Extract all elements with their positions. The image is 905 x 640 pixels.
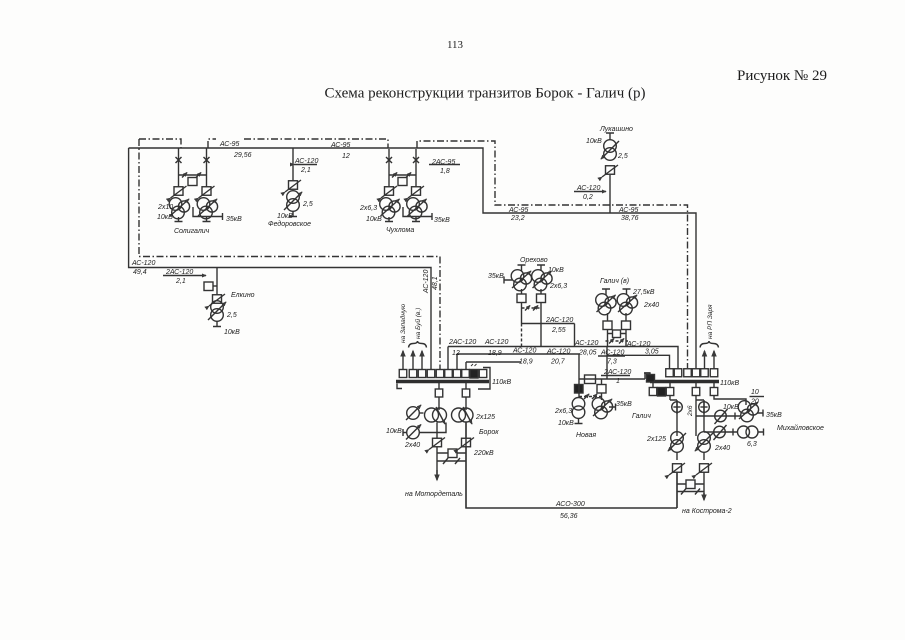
- svg-text:на Западную: на Западную: [399, 304, 407, 343]
- switch T2: [696, 463, 712, 475]
- breaker g3: [684, 369, 692, 377]
- wire 10kV stub left: [385, 217, 393, 222]
- svg-text:27,5кВ: 27,5кВ: [632, 289, 655, 296]
- svg-text:3,05: 3,05: [645, 349, 659, 356]
- line labels top: [131, 141, 659, 520]
- switch right: [408, 186, 424, 198]
- breaker below bus 4: [710, 388, 718, 396]
- disconnector x left: [386, 157, 392, 163]
- switch: [285, 180, 301, 192]
- breaker b2: [409, 370, 417, 378]
- tie arrows: [525, 306, 530, 311]
- svg-text:Солигалич: Солигалич: [174, 228, 210, 235]
- transformer T2: [592, 398, 612, 419]
- wire line C stub: [466, 362, 521, 370]
- breaker black: [575, 385, 584, 394]
- wire line B Borok-Novaya: [457, 354, 579, 384]
- wire 35kV stub: [609, 404, 616, 411]
- transformer T2 2w horizontal: [738, 426, 750, 438]
- tie breaker square: [188, 178, 197, 186]
- tie square 220: [448, 449, 457, 458]
- tie mid square: [613, 330, 621, 338]
- switch: [602, 165, 618, 177]
- wire feeder right: [415, 149, 417, 187]
- switch T2: [458, 438, 474, 450]
- substation Galich(v): [596, 278, 660, 347]
- wire feeder: [292, 148, 294, 181]
- transformer: [604, 140, 617, 153]
- wire downs: [677, 452, 704, 460]
- tie arrows: [182, 173, 187, 178]
- svg-text:АС-120: АС-120: [423, 270, 430, 294]
- breaker b6: [445, 370, 453, 378]
- transformer: [208, 301, 226, 322]
- junction tick 1: [734, 413, 736, 420]
- breaker b4: [427, 370, 435, 378]
- wire dash-dot left and lower border: [139, 139, 440, 370]
- break marks: [443, 458, 460, 464]
- svg-text:10кВ: 10кВ: [386, 428, 402, 435]
- svg-text:2х6,3: 2х6,3: [554, 408, 572, 415]
- wire top stub right: [537, 265, 545, 271]
- tiny marks above black breaker: [471, 364, 477, 366]
- wire line H3 2AC-120 to Galich hook: [579, 373, 650, 379]
- breaker g5: [701, 369, 709, 377]
- transformer T2 2x125: [452, 408, 466, 422]
- svg-text:20,7: 20,7: [550, 359, 566, 366]
- breaker g2: [674, 369, 682, 377]
- svg-text:на Буй (в.): на Буй (в.): [414, 308, 422, 339]
- arrow to Buy 2: [421, 351, 423, 370]
- breaker below bus left: [435, 389, 443, 397]
- disconnector x left: [176, 157, 182, 163]
- wire dash-dot top border mid: [208, 139, 388, 148]
- break marks: [681, 489, 700, 495]
- transformer T1: [380, 198, 400, 219]
- wire right drop: [625, 313, 627, 347]
- tie arrow 1: [584, 394, 589, 399]
- breaker g1: [666, 369, 674, 377]
- substation Galich lower: [632, 383, 732, 515]
- wire drop to transformer left: [670, 396, 677, 432]
- svg-text:12: 12: [342, 153, 350, 160]
- svg-text:Схема реконструкции транзитов: Схема реконструкции транзитов Борок - Га…: [325, 86, 646, 102]
- wire left drop: [607, 313, 609, 347]
- substation Novaya: [554, 375, 632, 439]
- wire feeder down: [609, 175, 611, 213]
- svg-text:1: 1: [616, 378, 620, 385]
- switch left: [171, 186, 187, 198]
- svg-text:Галич (в): Галич (в): [600, 278, 629, 285]
- breaker below bus black: [658, 388, 666, 397]
- brace na RP Zarya: [700, 341, 719, 348]
- brace na Buy: [409, 341, 427, 348]
- svg-text:2х125: 2х125: [646, 436, 666, 443]
- wire feeder: [216, 268, 218, 296]
- svg-text:10кВ: 10кВ: [224, 329, 240, 336]
- svg-text:2,5: 2,5: [617, 153, 628, 160]
- circle slash 1: [715, 409, 728, 424]
- wire tie links: [677, 483, 704, 485]
- circle plus left: [672, 400, 683, 414]
- wire main line AC-95 top: [129, 148, 696, 369]
- svg-text:на Кострома-2: на Кострома-2: [682, 508, 732, 515]
- breaker b10: [479, 370, 487, 378]
- breaker g6: [710, 369, 718, 377]
- svg-text:2х40: 2х40: [643, 302, 659, 309]
- transformer T1: [572, 398, 585, 419]
- breaker left: [517, 294, 526, 303]
- wire left dashed drop: [521, 324, 523, 348]
- wire tie links: [437, 452, 466, 454]
- wire 10kV stub: [575, 419, 583, 424]
- wire T2 down: [465, 423, 467, 439]
- arrow to Buy 1: [412, 351, 414, 370]
- svg-text:35кВ: 35кВ: [488, 273, 504, 280]
- Galich bus squares: [644, 304, 739, 387]
- tie row dashed: [606, 340, 629, 342]
- breaker below bus 3: [692, 388, 700, 396]
- substation Mikhailovskoe: [696, 389, 824, 452]
- hook left with dark square: [644, 373, 650, 381]
- tie arrows: [609, 339, 614, 344]
- svg-text:49,4: 49,4: [133, 269, 147, 276]
- bus 110kV Galich: [650, 380, 719, 384]
- wire top stub: [606, 133, 614, 140]
- circle plus right: [699, 400, 710, 414]
- switch left: [381, 186, 397, 198]
- machine M1: [406, 405, 421, 420]
- transformer T1 2x125: [425, 408, 439, 422]
- svg-text:АС-95: АС-95: [330, 142, 351, 149]
- tie square: [686, 480, 695, 489]
- breaker right: [537, 294, 546, 303]
- substation Chukhloma: [359, 149, 450, 234]
- svg-text:10кВ: 10кВ: [558, 420, 574, 427]
- svg-text:АС-95: АС-95: [508, 207, 529, 214]
- wire vertical at Galich(v) junction: [606, 347, 608, 380]
- transformer T1: [169, 198, 189, 219]
- svg-text:110кВ: 110кВ: [720, 380, 739, 387]
- transformer T2: [407, 198, 427, 219]
- tie row dashed: [579, 396, 601, 398]
- wire M2 link: [419, 423, 446, 433]
- svg-text:Елкино: Елкино: [231, 292, 255, 299]
- svg-text:2,55: 2,55: [551, 327, 566, 334]
- disconnector x right: [413, 157, 419, 163]
- wire tie link: [389, 174, 416, 176]
- breaker right: [597, 385, 606, 394]
- svg-text:10кВ: 10кВ: [366, 216, 382, 223]
- svg-text:7,3: 7,3: [607, 359, 617, 366]
- svg-text:10кВ: 10кВ: [277, 213, 293, 220]
- breaker b9 black: [470, 370, 478, 379]
- wire top stub left: [518, 265, 526, 271]
- machine M2: [406, 425, 421, 440]
- breaker right: [622, 321, 631, 330]
- wire 10kV stub right: [412, 217, 420, 222]
- svg-text:2х6: 2х6: [687, 405, 694, 417]
- wire 2AC-120 2,55 line: [522, 324, 575, 348]
- svg-text:2х6,3: 2х6,3: [359, 205, 377, 212]
- breaker b1: [399, 370, 407, 378]
- svg-text:АС-120: АС-120: [512, 348, 536, 355]
- wire feeder top: [714, 396, 746, 405]
- wire feeder right: [206, 148, 208, 187]
- wire stub right: [758, 429, 764, 436]
- transformer T2: [197, 198, 217, 219]
- arrow to RP Zarya 1: [704, 351, 706, 369]
- svg-text:АС-95: АС-95: [618, 207, 639, 214]
- label bracket 110kV: [478, 368, 490, 390]
- svg-text:2,1: 2,1: [300, 167, 311, 174]
- wire feeder left: [388, 149, 390, 187]
- substation Orekhovo: [488, 257, 575, 347]
- transformer T1 2x125: [671, 432, 684, 445]
- wire tie lower dashed: [677, 491, 704, 493]
- wire drop left: [438, 383, 440, 410]
- svg-text:Федоровское: Федоровское: [268, 220, 311, 228]
- svg-text:56,36: 56,36: [560, 513, 578, 520]
- svg-text:28,05: 28,05: [578, 350, 597, 357]
- svg-text:Галич: Галич: [632, 413, 651, 420]
- substation Fedorovskoe: [268, 148, 313, 228]
- svg-text:Новая: Новая: [576, 432, 596, 439]
- wire 10kV stub: [213, 321, 221, 327]
- bus 110kV Borok: [396, 380, 489, 384]
- wire tie lower: [437, 460, 466, 462]
- wire 10kV stub right: [203, 217, 211, 222]
- transformer T1: [511, 270, 531, 291]
- svg-text:АС-120: АС-120: [484, 339, 508, 346]
- svg-text:18,9: 18,9: [488, 350, 502, 357]
- transformer T2: [617, 294, 637, 315]
- wire dash-dot top border right: [417, 141, 688, 368]
- wire T1 down: [436, 423, 438, 439]
- svg-text:0,2: 0,2: [583, 194, 593, 201]
- svg-text:6,3: 6,3: [747, 441, 757, 448]
- arrow na Kostroma: [703, 493, 705, 500]
- bar 2AC-120 1: [601, 375, 630, 377]
- svg-text:АС-120: АС-120: [546, 349, 570, 356]
- svg-text:35кВ: 35кВ: [434, 217, 450, 224]
- substation Lukashino: [586, 126, 633, 213]
- junction tick 2: [732, 429, 734, 436]
- tie breaker square: [398, 178, 407, 186]
- svg-text:10кВ: 10кВ: [723, 404, 739, 411]
- svg-text:2,5: 2,5: [226, 312, 237, 319]
- breaker below bus 2: [666, 388, 674, 396]
- svg-text:12: 12: [452, 350, 460, 357]
- wire down continue: [437, 447, 466, 508]
- svg-text:10кВ: 10кВ: [586, 138, 602, 145]
- switch: [209, 294, 225, 306]
- svg-text:АС-120: АС-120: [626, 341, 650, 348]
- svg-text:2х10: 2х10: [157, 204, 173, 211]
- tie row dashed: [522, 307, 542, 309]
- wire T1 top: [676, 432, 678, 436]
- svg-text:35кВ: 35кВ: [226, 216, 242, 223]
- transformer T1: [596, 294, 616, 315]
- breaker below bus right: [462, 389, 470, 397]
- svg-text:2х125: 2х125: [475, 414, 495, 421]
- breaker left: [603, 321, 612, 330]
- wire main line AC-120 lower-left: [129, 148, 431, 370]
- svg-text:20: 20: [750, 399, 759, 406]
- svg-text:Рисунок № 29: Рисунок № 29: [737, 68, 827, 84]
- transformer T1 3w: [738, 401, 758, 422]
- wire M1 link: [419, 412, 423, 414]
- wire stems below bus: [653, 383, 714, 387]
- svg-text:2,5: 2,5: [302, 201, 313, 208]
- breaker b5: [436, 370, 444, 378]
- bar 2AC-95 1,8: [429, 164, 460, 166]
- label underline bars: [163, 165, 630, 376]
- wire aux link: [213, 285, 217, 287]
- svg-text:2х40: 2х40: [714, 445, 730, 452]
- svg-text:2,1: 2,1: [175, 278, 186, 285]
- switch T1: [429, 438, 445, 450]
- arrow to RP Zarya 2: [713, 351, 715, 369]
- tie arrow 2: [592, 394, 597, 399]
- wire 35kV stub: [504, 277, 512, 284]
- svg-text:на РП Заря: на РП Заря: [707, 304, 714, 339]
- aux square left: [204, 282, 213, 291]
- svg-text:АС-120: АС-120: [574, 340, 598, 347]
- svg-text:10: 10: [751, 389, 759, 396]
- bar AC-120 0,2: [574, 191, 606, 193]
- wire line H2 to Galich bus: [607, 355, 670, 369]
- transformer: [284, 191, 302, 212]
- breaker b7: [453, 370, 461, 378]
- bus left end hook: [397, 384, 402, 389]
- svg-text:АСО-300: АСО-300: [555, 501, 585, 508]
- bar AC-120 2,1: [294, 164, 317, 166]
- breaker top: [585, 375, 596, 384]
- svg-text:на Мотордеталь: на Мотордеталь: [405, 490, 463, 498]
- breaker g4: [692, 369, 700, 377]
- wire 10kV stub left: [175, 217, 183, 222]
- wire feeder left: [178, 148, 180, 187]
- svg-text:23,2: 23,2: [510, 215, 525, 222]
- wire links: [579, 379, 602, 400]
- switch right: [199, 186, 215, 198]
- svg-text:2АС-120: 2АС-120: [448, 339, 476, 346]
- arrow to Zapadnuyu: [402, 351, 404, 370]
- wire left drop: [521, 289, 523, 324]
- wire M2 stub: [403, 429, 407, 436]
- svg-text:35кВ: 35кВ: [616, 401, 632, 408]
- breaker b8: [462, 370, 470, 378]
- wire top stub left: [602, 289, 610, 295]
- svg-text:Михайловское: Михайловское: [777, 424, 824, 432]
- circle slash 2: [714, 425, 727, 440]
- svg-text:1,8: 1,8: [440, 168, 450, 175]
- wire right drop: [540, 289, 542, 347]
- wire dash-dot top border left: [139, 139, 181, 148]
- wire 35kV stub: [193, 207, 223, 220]
- svg-text:Лукашино: Лукашино: [599, 126, 633, 133]
- svg-text:18,9: 18,9: [519, 359, 533, 366]
- wire ASO-300 bottom line: [466, 422, 677, 508]
- svg-text:Борок: Борок: [479, 429, 499, 436]
- wire down continue: [677, 473, 704, 509]
- svg-text:110кВ: 110кВ: [492, 379, 511, 386]
- svg-text:38,76: 38,76: [621, 215, 639, 222]
- svg-text:113: 113: [447, 39, 464, 51]
- bar 2AC-120 2,1 with arrow: [163, 275, 206, 277]
- switch T1: [669, 463, 685, 475]
- wire tie link: [608, 333, 627, 335]
- svg-text:2АС-120: 2АС-120: [545, 317, 573, 324]
- svg-text:Чухлома: Чухлома: [386, 227, 414, 234]
- svg-text:10кВ: 10кВ: [548, 267, 564, 274]
- wire top stub right: [623, 289, 631, 295]
- breaker b3: [418, 370, 426, 378]
- transformer T2: [532, 270, 552, 291]
- wire drop right pair: [696, 396, 704, 436]
- substation Borok lower: [386, 383, 499, 508]
- svg-text:220кВ: 220кВ: [473, 450, 494, 457]
- wire feeder 2: [704, 431, 737, 433]
- svg-text:АС-95: АС-95: [219, 141, 240, 148]
- breaker below bus 1: [649, 388, 657, 396]
- wire drop right: [465, 383, 467, 410]
- svg-text:2х6,3: 2х6,3: [549, 283, 567, 290]
- substation Soligalich: [157, 148, 242, 235]
- svg-text:Орехово: Орехово: [520, 257, 548, 264]
- svg-text:35кВ: 35кВ: [766, 412, 782, 419]
- svg-text:АС-120: АС-120: [131, 260, 155, 267]
- disconnector x right: [204, 157, 210, 163]
- svg-text:48,1: 48,1: [432, 276, 439, 290]
- svg-text:10кВ: 10кВ: [157, 214, 173, 221]
- wire 35kV stub: [757, 410, 763, 417]
- wire line H1 Borok-Galich: [448, 347, 678, 371]
- tie arrows: [392, 173, 397, 178]
- wire feeder 1: [696, 415, 740, 417]
- svg-text:2х40: 2х40: [404, 442, 420, 449]
- svg-text:29,56: 29,56: [233, 152, 252, 159]
- Borok bus squares: [397, 304, 511, 389]
- arrow na Motordetal: [436, 470, 438, 480]
- wire tie link: [179, 174, 207, 176]
- bar AC-120 7,3: [598, 355, 625, 357]
- wire 10kV stub: [289, 211, 297, 217]
- transformer T2 2x125: [698, 432, 711, 445]
- substation Elkino: [204, 268, 255, 337]
- wire 35kV stub: [403, 207, 432, 220]
